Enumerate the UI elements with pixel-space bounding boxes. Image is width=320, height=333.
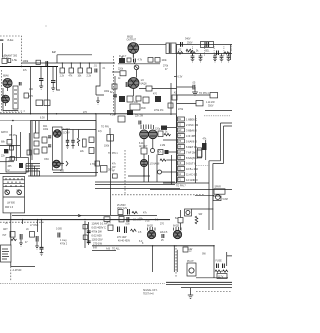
svg-text:8-4Ω: 8-4Ω	[8, 38, 14, 42]
svg-text:2 OSC 1M: 2 OSC 1M	[186, 123, 198, 127]
ladder row 5 box	[178, 139, 185, 143]
svg-text:5 6AV6 D: 5 6AV6 D	[186, 139, 197, 143]
svg-text:100k: 100k	[104, 146, 110, 148]
dashed vert center	[124, 150, 126, 194]
trimmer small circle	[151, 149, 155, 153]
wire left col	[114, 76, 116, 115]
bypass stub 2	[72, 130, 74, 141]
capacitor C11 with ground	[213, 54, 217, 63]
svg-text:6AQ8: 6AQ8	[141, 83, 148, 86]
svg-text:OUTPUT: OUTPUT	[127, 40, 137, 42]
wire lm3	[20, 132, 22, 157]
converter box V4	[53, 127, 63, 170]
bottom cap c22	[118, 227, 120, 233]
FM tuner shield dashed border top	[0, 36, 22, 66]
trimmer circle small	[134, 65, 139, 70]
tube V4b	[53, 160, 61, 168]
box osc pad	[130, 104, 140, 110]
wire right col	[170, 83, 172, 115]
resistor R10 zigzag	[186, 49, 193, 52]
svg-text:SPKR: SPKR	[215, 187, 222, 189]
svg-text:TO PIN 1: TO PIN 1	[108, 153, 118, 155]
switch ladder left rail	[176, 115, 178, 183]
IF transformer T1	[13, 86, 18, 109]
AC zig 1	[215, 270, 222, 272]
node AVC	[12, 120, 14, 122]
ground C16	[71, 142, 74, 148]
resistor R19 zig	[77, 130, 79, 147]
cluster mid wire spine	[85, 221, 89, 248]
capacitor C30	[134, 59, 136, 63]
wire ladder bottom	[163, 182, 209, 184]
arrow on bus A	[78, 214, 81, 216]
pilot lamp circle	[189, 268, 194, 273]
decoupling stub 4	[88, 63, 90, 68]
ladder row 3 box	[178, 128, 185, 132]
wire bundle bottom	[28, 175, 40, 177]
capacitor C10 with ground	[199, 54, 203, 63]
svg-text:9 OUT 8: 9 OUT 8	[186, 161, 196, 165]
wire V2 cathode	[133, 92, 135, 96]
resistor R26 dark	[202, 143, 207, 150]
svg-text:6.3V: 6.3V	[178, 77, 183, 79]
resistor R23	[158, 131, 163, 137]
wire right corner	[205, 110, 232, 112]
rectifier drop 4	[223, 47, 225, 57]
comp box grid	[120, 71, 126, 76]
dashed screen border mid	[113, 56, 115, 113]
bottom comp row 2: box	[119, 217, 124, 222]
comp box left V2	[112, 84, 117, 89]
wire left feed	[0, 164, 26, 174]
padder box B	[42, 147, 47, 153]
svg-text:1/2: 1/2	[52, 50, 56, 54]
bottom zig b	[131, 229, 137, 232]
wire bus B2	[177, 103, 197, 105]
wire switch to rail	[192, 208, 214, 210]
box osc pad dark	[127, 110, 133, 115]
svg-text:INT: INT	[3, 235, 7, 237]
ladder row 6 box	[178, 145, 185, 149]
comp left of ladder b	[165, 150, 169, 154]
svg-text:FUSE: FUSE	[216, 261, 223, 263]
ladder feed wire 3	[166, 151, 177, 153]
stray mark	[46, 26, 47, 27]
ladder row 2 box	[178, 123, 185, 127]
ladder row 12 box	[178, 178, 185, 182]
AC cap pair	[217, 264, 225, 269]
dashed stub bus C	[0, 221, 44, 223]
dotted base line	[0, 282, 165, 284]
node V8	[143, 175, 144, 176]
resistor R5	[44, 100, 50, 106]
wire main bus left	[0, 66, 58, 68]
wire af col	[110, 135, 112, 216]
capacitor C31 dark	[126, 82, 128, 87]
svg-text:250V: 250V	[187, 43, 193, 45]
wire stub y114	[133, 113, 177, 115]
svg-text:C1b: C1b	[17, 190, 22, 192]
svg-text:270k: 270k	[163, 66, 169, 68]
wire right edge	[230, 45, 232, 61]
svg-text:4.5M: 4.5M	[110, 115, 115, 117]
svg-text:ANT: ANT	[3, 228, 8, 231]
svg-text:6.3V: 6.3V	[188, 249, 193, 251]
resistor R18	[27, 150, 31, 155]
wire lm2	[15, 135, 17, 161]
svg-text:470k 2W: 470k 2W	[92, 230, 103, 234]
wire module out	[11, 262, 35, 267]
wire drop d2	[173, 246, 175, 272]
svg-text:1.5k: 1.5k	[12, 58, 18, 62]
svg-text:R21: R21	[43, 126, 48, 128]
comp box rc1	[172, 95, 177, 100]
ground return	[96, 95, 104, 104]
band box ticks	[6, 178, 22, 187]
cap c21	[58, 233, 60, 238]
wire bundle bend 1	[26, 164, 40, 177]
dashed AC vert	[175, 245, 177, 278]
ladder feed wire 2	[163, 139, 177, 141]
resistor R3	[24, 93, 28, 98]
box b4	[143, 97, 149, 103]
wire screen feed	[40, 67, 42, 79]
switch ladder right rail	[195, 115, 197, 183]
svg-text:TO PIN 4: TO PIN 4	[199, 93, 209, 95]
tube V8 AF triode	[140, 159, 147, 166]
band switch row 3	[3, 186, 25, 188]
wire mid h	[92, 250, 116, 252]
IF can box A	[89, 137, 94, 142]
wire bundle bend 3	[26, 169, 40, 177]
junction dots bus4	[152, 245, 215, 246]
band switch row 4	[3, 196, 25, 198]
svg-text:1200 25V: 1200 25V	[92, 238, 103, 242]
dashed shield border left module	[2, 70, 26, 111]
ground C4	[39, 81, 43, 90]
tuner chassis box	[31, 121, 97, 177]
svg-text:1/2 6AQ8: 1/2 6AQ8	[150, 163, 161, 166]
wire det tube drop a	[143, 154, 145, 182]
svg-text:470k 2: 470k 2	[60, 244, 68, 246]
capacitor C8	[217, 51, 219, 56]
tube V7	[173, 230, 181, 238]
svg-text:6.3V: 6.3V	[40, 118, 45, 120]
svg-text:100k: 100k	[162, 60, 168, 62]
ground g3	[40, 249, 44, 256]
wire tc2	[35, 121, 37, 133]
tube V5a diode	[140, 130, 149, 139]
svg-text:270k: 270k	[178, 109, 184, 111]
wire tc1	[31, 121, 33, 160]
wire drop right	[213, 246, 215, 278]
B plus box	[178, 218, 183, 223]
ladder row 11 box	[178, 172, 185, 176]
right enclosure inner	[213, 126, 232, 230]
svg-text:TO PIN 7: TO PIN 7	[176, 186, 186, 188]
wire cathode return	[3, 88, 18, 111]
wire grid bus upper	[22, 62, 116, 64]
wire lm6	[28, 133, 30, 155]
left mid cluster: resistor R14	[7, 140, 12, 145]
svg-text:0.02 600: 0.02 600	[92, 234, 103, 238]
resistor R7	[69, 68, 74, 73]
detector module box	[101, 166, 108, 173]
bottom rail 2	[166, 284, 232, 286]
ground C14	[192, 87, 198, 95]
svg-text:4 IF 455: 4 IF 455	[186, 134, 196, 138]
bottom rail 1	[166, 281, 232, 283]
rectifier drop 3	[213, 47, 215, 57]
svg-text:120p: 120p	[155, 129, 161, 131]
wire tc3	[38, 121, 40, 133]
cluster mid cap A	[87, 231, 91, 233]
capacitor C9 with ground	[191, 54, 195, 63]
wire right stub	[57, 67, 61, 91]
chassis ground	[188, 288, 193, 299]
resistor right of ladder	[197, 148, 201, 158]
bottom dashes	[196, 291, 232, 293]
svg-text:MW 1.6: MW 1.6	[5, 207, 14, 209]
wire trimmer to tube	[136, 70, 138, 78]
junction dots bus3	[22, 219, 86, 220]
svg-text:0.005: 0.005	[56, 229, 63, 231]
wire V8 down	[143, 167, 145, 176]
ladder feed resistor	[161, 126, 167, 130]
svg-text:CONV: CONV	[63, 133, 70, 135]
svg-text:TO PIN: TO PIN	[101, 127, 109, 129]
osc coil box C	[34, 149, 39, 154]
capacitor C2	[46, 61, 48, 66]
svg-text:LW 600: LW 600	[7, 203, 16, 205]
coupling cluster 1 resistor	[10, 232, 15, 238]
FM IF comp box dark	[119, 58, 125, 63]
svg-text:SIGNAL CKT-: SIGNAL CKT-	[143, 289, 158, 292]
box b3	[136, 96, 141, 101]
svg-text:IF 10.7: IF 10.7	[119, 56, 127, 58]
wire heater line	[57, 55, 92, 63]
wire drop d3	[176, 250, 178, 272]
wire lm1	[11, 125, 13, 160]
B plus stub	[180, 210, 182, 230]
comp on bus	[183, 247, 188, 252]
capacitor C4	[39, 79, 43, 81]
svg-text:270k 47k: 270k 47k	[154, 110, 164, 112]
coil L1	[36, 60, 40, 64]
wire vert v2	[171, 155, 173, 185]
wire bundle bend 2	[26, 166, 40, 176]
wire B+ line top	[176, 44, 232, 46]
coupling cluster 2 cap	[36, 236, 38, 242]
dashes mid right	[196, 165, 210, 167]
box b2	[127, 96, 133, 102]
svg-text:.005: .005	[125, 224, 130, 226]
resistor R11 zigzag	[224, 52, 230, 54]
ladder row 8 box	[178, 156, 185, 160]
antenna coil module box	[1, 245, 12, 262]
capacitor C15	[66, 140, 69, 142]
wire plate feed	[52, 67, 54, 81]
tube V2 6AQ8	[128, 78, 139, 93]
tube V3 6BQ5	[128, 43, 139, 57]
box b5 dark	[155, 96, 161, 102]
cluster mid cap B	[87, 241, 91, 243]
svg-text:OSC: OSC	[44, 159, 49, 161]
svg-text:2.2M: 2.2M	[160, 145, 165, 147]
wire stub c30	[133, 63, 135, 65]
resistor R12	[196, 101, 203, 106]
svg-text:100k: 100k	[23, 59, 29, 63]
dashed module drop	[10, 267, 12, 282]
comp box rc2	[168, 103, 173, 108]
svg-text:10 B+ 250: 10 B+ 250	[186, 167, 198, 171]
wire ladder feed 5	[162, 171, 177, 173]
band switch row 2	[3, 182, 25, 184]
row below V2: dark box	[119, 96, 125, 102]
resistor R15	[10, 146, 14, 150]
junction dots bus2	[30, 113, 97, 114]
bottom cap A	[128, 209, 130, 215]
svg-text:180k: 180k	[104, 91, 110, 93]
output transformer box speaker	[214, 189, 225, 194]
svg-text:L7 OSC: L7 OSC	[30, 225, 39, 227]
svg-text:0.05 400V C: 0.05 400V C	[92, 226, 107, 230]
wire drop d1	[152, 246, 154, 272]
svg-text:270 10W: 270 10W	[117, 237, 127, 239]
tube V6 grid hatch	[148, 227, 156, 231]
tube V4a	[53, 130, 61, 138]
tube V1 6BA6	[3, 78, 12, 91]
resistor Rh1 zigzag	[178, 52, 183, 55]
tuning cap gang B	[17, 190, 22, 195]
wire V2 plate	[139, 88, 177, 90]
svg-text:1 TR: 1 TR	[90, 164, 95, 166]
resistor R16 dark	[4, 149, 8, 153]
wire plate line	[62, 129, 96, 131]
coupling cluster 1 cap	[20, 234, 22, 240]
AC zig 2	[223, 270, 228, 272]
svg-text:3 6BA6 K: 3 6BA6 K	[186, 128, 197, 132]
wire spkr	[195, 194, 214, 196]
wire stub af	[128, 175, 150, 177]
decoupling stub 3	[79, 63, 81, 68]
IF can box B	[89, 148, 94, 154]
ground C5	[51, 83, 55, 92]
resistor R25	[141, 148, 147, 154]
dashes top right	[204, 115, 230, 117]
ladder row 9 box	[178, 161, 185, 165]
main bottom bus	[92, 245, 214, 247]
resistor R30	[146, 86, 152, 91]
wire encl comp	[205, 140, 207, 160]
resistor R20	[83, 139, 87, 147]
osc coil box A	[34, 133, 39, 138]
svg-text:12 GND 0: 12 GND 0	[186, 178, 198, 182]
svg-text:AF OUT: AF OUT	[139, 145, 148, 148]
box 1TR	[95, 161, 100, 166]
svg-text:0.02: 0.02	[145, 221, 150, 223]
svg-text:SEL: SEL	[205, 51, 210, 53]
wire AVC line	[30, 67, 32, 114]
dashed stub	[0, 112, 22, 114]
comp box 2	[127, 58, 131, 62]
wire lm5	[0, 161, 14, 163]
cluster mid box top	[104, 217, 110, 222]
ground g2	[35, 242, 39, 250]
resistor R13	[118, 116, 125, 122]
resistor R24 zig	[164, 133, 171, 135]
resistor R1	[2, 58, 7, 63]
bottom comp row 2 cap	[127, 217, 129, 222]
output transformer T2	[166, 43, 176, 54]
comp box 4	[155, 58, 160, 63]
pilot lamp box	[187, 263, 196, 276]
wire det bus 1	[95, 181, 175, 183]
antenna terminal bar	[0, 40, 3, 41]
wire long bus B	[0, 219, 170, 221]
tube V7 grid hatch	[174, 227, 182, 231]
band switch row 1	[3, 179, 25, 181]
svg-text:A-M 540: A-M 540	[13, 269, 23, 272]
svg-text:5.8M: 5.8M	[223, 199, 228, 201]
resistor R6	[60, 68, 65, 73]
wire det down 2	[152, 139, 154, 149]
bottom cap c23	[125, 227, 127, 234]
speaker circle	[215, 195, 220, 200]
wire AVC bus 2	[0, 120, 96, 122]
wire det tube drop b	[156, 155, 158, 183]
padder box A	[42, 137, 47, 143]
bottom zig A	[132, 211, 137, 213]
svg-text:1 meg: 1 meg	[60, 240, 67, 242]
wire module riser	[10, 213, 12, 245]
wire bus B1	[177, 94, 211, 96]
rectifier drop 1	[192, 47, 194, 57]
decoupling stub 1	[61, 63, 63, 68]
svg-text:C1a: C1a	[5, 190, 10, 192]
osc coil box B	[34, 141, 39, 146]
ladder row 1 box	[178, 117, 185, 121]
rectifier drop 2	[203, 47, 205, 57]
bottom small box A	[118, 210, 123, 215]
svg-text:11 AC 6.3: 11 AC 6.3	[186, 172, 198, 176]
svg-text:340V: 340V	[185, 39, 191, 41]
svg-text:220k: 220k	[118, 69, 124, 71]
capacitor C5	[51, 81, 55, 83]
wire band bottom 1	[150, 189, 232, 191]
capacitor C14	[193, 85, 195, 90]
svg-text:270 1W: 270 1W	[93, 242, 102, 246]
bottom comps left of V6	[108, 225, 113, 230]
resistor vertical zigzag	[195, 216, 198, 224]
small circle left of ladder	[158, 170, 162, 174]
box left af	[112, 174, 117, 178]
wire bundle bend 4	[26, 171, 40, 176]
capacitor Cp1	[48, 136, 51, 138]
svg-text:25 250V: 25 250V	[117, 205, 126, 207]
capacitor C17	[139, 121, 141, 125]
node bus B2	[37, 220, 39, 232]
vol control wire	[41, 220, 43, 247]
cluster mid resistor B	[83, 235, 88, 239]
wire plate to OT	[139, 44, 166, 46]
capacitor C3	[19, 82, 21, 86]
svg-text:22k 1W: 22k 1W	[135, 116, 144, 118]
coupling cluster 1 zig	[11, 238, 16, 240]
resistor R27	[197, 150, 202, 157]
svg-text:6BQ5: 6BQ5	[127, 37, 134, 39]
resistor R22	[107, 135, 114, 142]
